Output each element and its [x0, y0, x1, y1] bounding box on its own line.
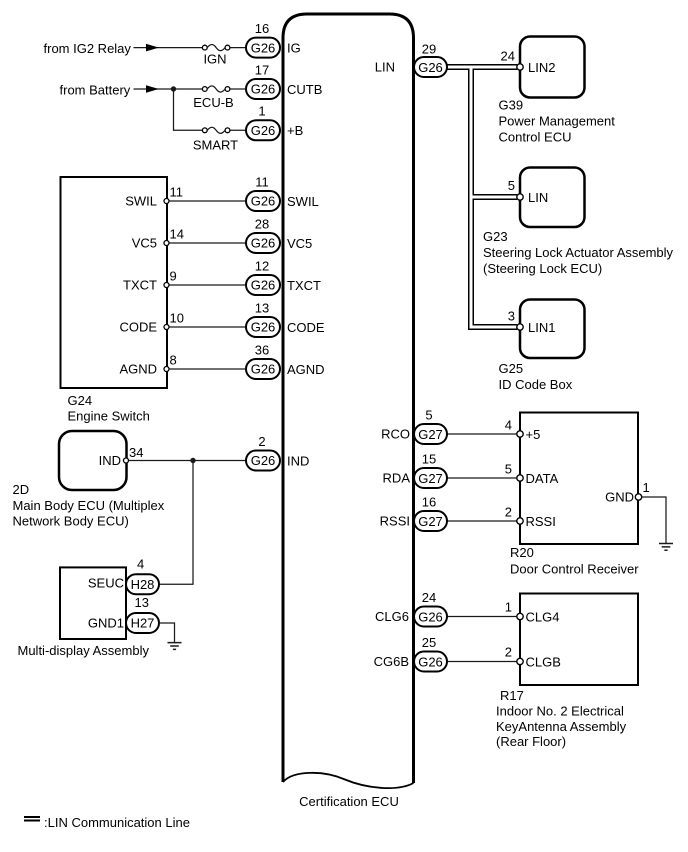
svg-text:AGND: AGND — [287, 362, 325, 377]
node: from Battery feed — [60, 83, 249, 111]
component R17 Indoor No. 2 Electrical Key Antenna Assembly — [496, 594, 638, 750]
connector H28 pin 4 (SEUC) — [126, 557, 159, 595]
wire fuse ECU-B to connector G26 pin 17 — [230, 88, 248, 90]
pin 3 of G25 (LIN1) — [508, 309, 523, 331]
svg-text:34: 34 — [129, 445, 143, 460]
svg-text:Certification ECU: Certification ECU — [299, 794, 399, 809]
svg-text:SWIL: SWIL — [125, 194, 157, 209]
svg-text:Steering Lock Actuator Assembl: Steering Lock Actuator Assembly — [483, 245, 674, 260]
svg-text:29: 29 — [422, 42, 436, 57]
wire H27 to ground — [159, 623, 175, 643]
R20 pin 1 GND wire to ground — [605, 480, 673, 550]
svg-text:G26: G26 — [251, 320, 276, 335]
svg-text:Engine Switch: Engine Switch — [68, 409, 150, 424]
svg-text:5: 5 — [425, 407, 432, 422]
svg-text:GND1: GND1 — [88, 615, 124, 630]
svg-text:LIN1: LIN1 — [528, 320, 555, 335]
svg-text:IND: IND — [287, 453, 309, 468]
wire IG2 relay to fuse IGN — [134, 47, 203, 49]
svg-text:R17: R17 — [500, 688, 524, 703]
svg-text:Power Management: Power Management — [499, 114, 616, 129]
node RSSI: G27 pin 16 to R20 pin 2 (RSSI) — [380, 494, 556, 531]
svg-text:Door Control Receiver: Door Control Receiver — [510, 562, 639, 577]
svg-text:CLG6: CLG6 — [375, 609, 409, 624]
svg-text:CG6B: CG6B — [374, 654, 409, 669]
svg-text:G26: G26 — [251, 362, 276, 377]
svg-text:2: 2 — [258, 434, 265, 449]
svg-text:G26: G26 — [418, 609, 443, 624]
component Multi-display Assembly — [18, 567, 150, 658]
svg-text:G26: G26 — [251, 453, 276, 468]
svg-text:Control ECU: Control ECU — [499, 130, 572, 145]
svg-text:Main Body ECU (Multiplex: Main Body ECU (Multiplex — [13, 498, 165, 513]
connector G26 pin 2 (IND) — [246, 434, 309, 471]
legend: LIN communication line symbol — [24, 815, 190, 830]
svg-text:G25: G25 — [499, 361, 524, 376]
svg-text:10: 10 — [170, 311, 184, 326]
svg-text:5: 5 — [508, 178, 515, 193]
svg-text:36: 36 — [255, 342, 269, 357]
wire battery branch to fuse SMART — [174, 89, 249, 153]
connector G26 pin 11 (SWIL) — [246, 174, 319, 211]
component G24 Engine Switch — [61, 177, 168, 424]
svg-text:+B: +B — [287, 123, 303, 138]
arrow on IG wire — [146, 44, 159, 52]
ground (Multi-display GND1) — [168, 643, 182, 650]
connector G26 pin 28 (VC5) — [246, 216, 312, 253]
svg-text:11: 11 — [255, 174, 269, 189]
svg-text:IGN: IGN — [203, 52, 226, 67]
svg-text:VC5: VC5 — [132, 236, 157, 251]
G24 pin 11 SWIL wire to G26 pin 11 — [125, 185, 248, 209]
G24 pin 8 AGND wire to G26 pin 36 — [119, 353, 248, 377]
svg-text:TXCT: TXCT — [287, 278, 321, 293]
svg-text:RSSI: RSSI — [380, 514, 410, 529]
svg-text:11: 11 — [170, 185, 184, 200]
Certification ECU outline — [283, 14, 414, 809]
svg-text:SMART: SMART — [193, 138, 238, 153]
svg-text:AGND: AGND — [119, 362, 157, 377]
svg-text:16: 16 — [422, 494, 436, 509]
wire IND branch down to H28 pin 4 — [159, 461, 193, 585]
G24 pin 14 VC5 wire to G26 pin 28 — [132, 227, 248, 251]
svg-text:ECU-B: ECU-B — [193, 95, 233, 110]
svg-text:13: 13 — [135, 595, 149, 610]
svg-text:RSSI: RSSI — [526, 514, 556, 529]
svg-text:Network Body ECU): Network Body ECU) — [13, 514, 129, 529]
fuse ECU-B — [202, 87, 207, 92]
junction battery branch — [171, 86, 176, 91]
wire IND: Main Body ECU pin 34 to G26 pin 2 — [124, 445, 249, 463]
svg-text:9: 9 — [170, 269, 177, 284]
svg-text:24: 24 — [501, 49, 515, 64]
svg-text:CLG4: CLG4 — [526, 609, 560, 624]
svg-text:Indoor No. 2 Electrical: Indoor No. 2 Electrical — [496, 704, 624, 719]
svg-text:G24: G24 — [68, 393, 93, 408]
node: from IG2 Relay feed — [44, 41, 249, 67]
svg-text:IG: IG — [287, 41, 301, 56]
connector G26 pin 12 (TXCT) — [246, 258, 321, 295]
svg-text:28: 28 — [255, 216, 269, 231]
svg-text:25: 25 — [422, 635, 436, 650]
wire battery to fuse ECU-B — [134, 88, 203, 90]
svg-text:G26: G26 — [251, 40, 276, 55]
component G25 ID Code Box — [499, 300, 585, 393]
svg-text:G27: G27 — [418, 514, 443, 529]
node RCO: G27 pin 5 to R20 pin 4 (+5) — [381, 407, 540, 444]
svg-text:1: 1 — [643, 480, 650, 495]
svg-text:G26: G26 — [251, 278, 276, 293]
svg-text:24: 24 — [422, 590, 436, 605]
svg-text:15: 15 — [422, 451, 436, 466]
svg-text:1: 1 — [505, 600, 512, 615]
svg-text:TXCT: TXCT — [123, 278, 157, 293]
svg-text:G39: G39 — [499, 98, 524, 113]
node CG6B: G26 pin 25 to R17 pin 2 (CLGB) — [374, 635, 561, 672]
svg-text:14: 14 — [170, 227, 184, 242]
svg-text:13: 13 — [255, 300, 269, 315]
svg-text:+5: +5 — [526, 427, 541, 442]
svg-text:G26: G26 — [418, 654, 443, 669]
svg-text:(Rear Floor): (Rear Floor) — [496, 734, 566, 749]
svg-text:ID Code Box: ID Code Box — [499, 377, 573, 392]
svg-text:CODE: CODE — [119, 320, 157, 335]
svg-text:2: 2 — [505, 505, 512, 520]
svg-text:KeyAntenna Assembly: KeyAntenna Assembly — [496, 719, 627, 734]
node RDA: G27 pin 15 to R20 pin 5 (DATA) — [383, 451, 559, 488]
svg-text:from Battery: from Battery — [60, 83, 131, 98]
connector G26 pin 36 (AGND) — [246, 342, 325, 379]
G24 pin 9 TXCT wire to G26 pin 12 — [123, 269, 248, 293]
svg-text:SWIL: SWIL — [287, 194, 319, 209]
fuse SMART — [202, 128, 207, 133]
svg-text:R20: R20 — [510, 545, 534, 560]
component 2D Main Body ECU — [13, 431, 165, 529]
svg-text:H28: H28 — [131, 577, 155, 592]
svg-text:G26: G26 — [418, 60, 443, 75]
junction IND branch — [190, 458, 195, 463]
svg-text:G26: G26 — [251, 194, 276, 209]
svg-text:2: 2 — [505, 645, 512, 660]
node CLG6: G26 pin 24 to R17 pin 1 (CLG4) — [375, 590, 559, 627]
svg-text:RCO: RCO — [381, 427, 410, 442]
svg-text:(Steering Lock ECU): (Steering Lock ECU) — [483, 261, 602, 276]
connector H27 pin 13 (GND1) — [126, 595, 159, 633]
svg-text:Multi-display Assembly: Multi-display Assembly — [18, 643, 150, 658]
connector G26 pin 1 (+B) — [246, 104, 303, 141]
component G39 Power Management Control ECU — [499, 37, 616, 145]
svg-text:G27: G27 — [418, 471, 443, 486]
G24 pin 10 CODE wire to G26 pin 13 — [119, 311, 248, 335]
svg-text:G23: G23 — [483, 229, 508, 244]
connector G26 pin 29 (LIN) — [414, 42, 447, 78]
svg-text:CUTB: CUTB — [287, 82, 322, 97]
wire fuse SMART to connector G26 pin 1 — [230, 129, 248, 131]
svg-text:from IG2 Relay: from IG2 Relay — [44, 41, 132, 56]
svg-text:4: 4 — [505, 418, 512, 433]
svg-text::LIN Communication Line: :LIN Communication Line — [44, 815, 190, 830]
pin 24 of G39 (LIN2) — [501, 49, 524, 71]
LIN communication line (double line) from G26 pin 29 to LIN2 / LIN / LIN1 — [447, 67, 517, 327]
svg-text:LIN2: LIN2 — [528, 60, 555, 75]
svg-text:1: 1 — [258, 104, 265, 119]
component G23 Steering Lock Actuator Assembly — [483, 168, 674, 277]
svg-text:CODE: CODE — [287, 320, 325, 335]
svg-text:IND: IND — [99, 453, 121, 468]
svg-text:3: 3 — [508, 309, 515, 324]
svg-text:4: 4 — [137, 557, 144, 572]
connector G26 pin 16 (IG) — [246, 21, 301, 58]
arrow on battery wire — [146, 85, 159, 93]
connector G26 pin 17 (CUTB) — [246, 62, 322, 99]
svg-text:RDA: RDA — [383, 471, 411, 486]
svg-text:5: 5 — [505, 462, 512, 477]
svg-text:SEUC: SEUC — [88, 576, 124, 591]
svg-text:16: 16 — [255, 21, 269, 36]
component R20 Door Control Receiver — [510, 413, 639, 577]
svg-text:12: 12 — [255, 258, 269, 273]
fuse IGN — [202, 45, 207, 50]
svg-text:CLGB: CLGB — [526, 654, 561, 669]
svg-text:LIN: LIN — [375, 60, 395, 75]
svg-text:G26: G26 — [251, 236, 276, 251]
svg-text:17: 17 — [255, 62, 269, 77]
svg-text:G27: G27 — [418, 427, 443, 442]
svg-text:8: 8 — [170, 353, 177, 368]
svg-text:H27: H27 — [131, 616, 155, 631]
connector G26 pin 13 (CODE) — [246, 300, 325, 337]
svg-text:G26: G26 — [251, 123, 276, 138]
svg-text:GND: GND — [605, 490, 634, 505]
svg-text:G26: G26 — [251, 82, 276, 97]
svg-text:VC5: VC5 — [287, 236, 312, 251]
svg-text:2D: 2D — [13, 482, 30, 497]
ground (R20 GND) — [659, 544, 673, 551]
svg-text:DATA: DATA — [526, 471, 559, 486]
wire fuse IGN to connector G26 pin 16 — [230, 47, 248, 49]
svg-text:LIN: LIN — [528, 190, 548, 205]
pin 5 of G23 (LIN) — [508, 178, 523, 200]
